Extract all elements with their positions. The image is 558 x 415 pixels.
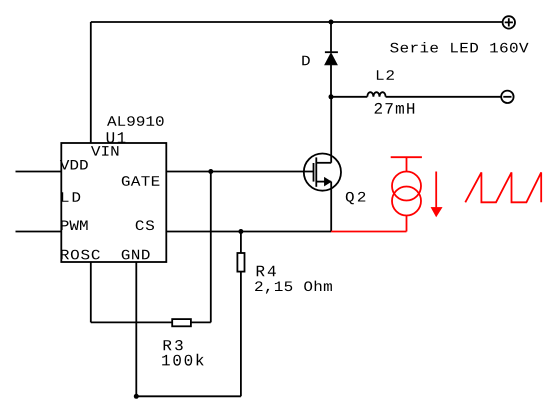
wire ROSC horizontal to R3 xyxy=(91,321,172,323)
wire VDD stub xyxy=(16,171,62,173)
node junction gate wire xyxy=(208,169,213,174)
wire mosfet source vertical xyxy=(330,182,332,232)
wire mosfet drain vertical xyxy=(330,97,332,163)
wire gate junction vertical to R3 xyxy=(210,172,212,323)
wire R4 top xyxy=(240,232,242,254)
diode D xyxy=(325,52,338,65)
label 100k xyxy=(162,354,204,366)
pin label LD xyxy=(62,192,80,202)
wire top rail horizontal xyxy=(91,21,503,23)
transistor Q2 source arrow xyxy=(324,177,331,185)
label D xyxy=(302,56,310,65)
node junction ground xyxy=(134,394,139,399)
terminal minus (-) xyxy=(501,91,513,103)
node junction diode / inductor / drain xyxy=(329,94,334,99)
pin label GND xyxy=(122,250,150,260)
sawtooth current waveform (red) xyxy=(465,172,541,202)
label U1 xyxy=(107,132,126,143)
red net: mosfet source to current source xyxy=(331,231,406,233)
pin label ROSC xyxy=(61,250,100,260)
current source I1 (red) xyxy=(391,157,422,231)
label Q2 xyxy=(346,192,366,204)
label R4 xyxy=(257,266,276,277)
wire GATE to mosfet xyxy=(166,171,313,173)
wire R3 to gate column xyxy=(191,321,211,323)
wire CS to mosfet source xyxy=(166,231,331,233)
wire R4 bottom xyxy=(240,272,242,397)
wire diode to lower junction xyxy=(330,65,332,97)
wire diode column upper xyxy=(330,22,332,52)
pin label VDD xyxy=(60,160,88,170)
label R3 xyxy=(164,340,183,350)
terminal plus (+) xyxy=(503,16,515,28)
label Serie LED 160V xyxy=(390,42,528,53)
wire ROSC vertical xyxy=(90,262,92,322)
wire VIN vertical riser xyxy=(90,22,92,143)
node junction top rail / diode xyxy=(329,20,334,25)
node junction CS / R4 xyxy=(238,229,243,234)
label AL9910 xyxy=(107,116,164,126)
label L2 xyxy=(377,70,394,80)
wire PWM stub xyxy=(16,231,62,233)
pin label PWM xyxy=(61,221,88,231)
wire GND vertical xyxy=(135,262,137,396)
wire lower junction to inductor xyxy=(331,96,367,98)
wire bottom ground horizontal xyxy=(136,395,241,397)
label 27mH xyxy=(375,103,415,114)
resistor R4 body xyxy=(237,253,244,272)
inductor L2 xyxy=(367,92,385,97)
pin label CS xyxy=(136,220,154,230)
pin label GATE xyxy=(122,176,160,186)
IC U1 AL9910 body xyxy=(61,143,166,262)
label 2,15 Ohm xyxy=(255,281,332,294)
transistor Q2 mosfet body xyxy=(304,154,341,191)
wire inductor to minus terminal xyxy=(386,96,502,98)
pin label VIN xyxy=(91,146,118,156)
resistor R3 body xyxy=(172,319,191,326)
current direction arrow (red) xyxy=(431,172,442,217)
